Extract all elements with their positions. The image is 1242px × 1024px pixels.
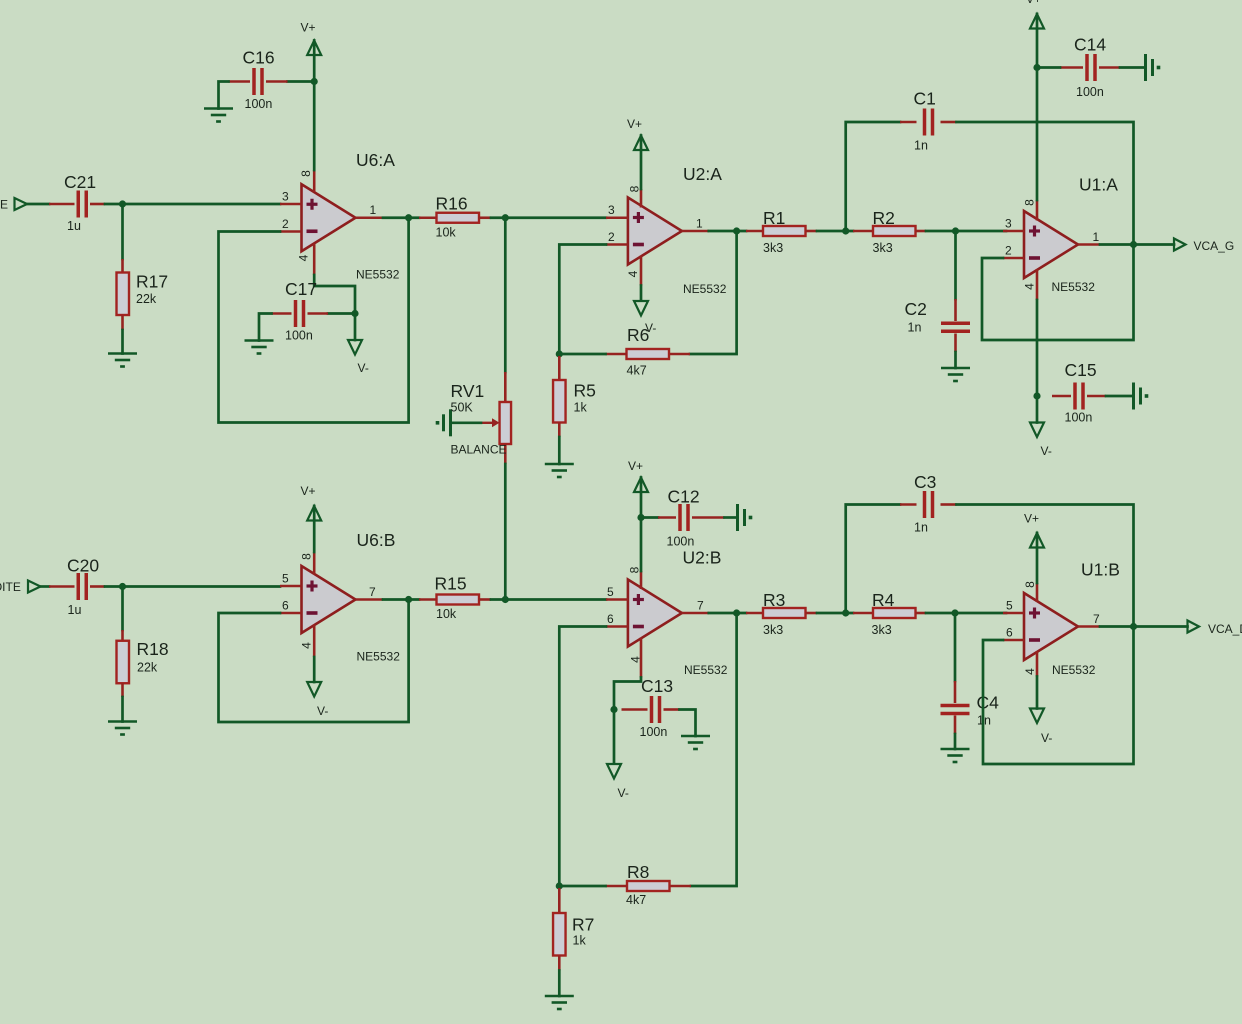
resistor R16 right pin — [479, 216, 492, 219]
capacitor C17 — [296, 300, 304, 327]
label U1:B — [1081, 560, 1120, 580]
resistor R3 — [763, 608, 806, 618]
part number NE5532 U2:B — [684, 663, 728, 677]
svg-text:1k: 1k — [574, 401, 588, 415]
svg-text:NE5532: NE5532 — [683, 282, 727, 296]
wire R2 to U1:A pin 3 — [926, 230, 1006, 233]
node U1:A output junction — [1130, 241, 1137, 248]
U1:A pin 8 stub — [1036, 200, 1039, 221]
label U2:B — [683, 548, 722, 568]
svg-text:R2: R2 — [873, 208, 895, 228]
U1:B pin 7 output stub — [1078, 625, 1100, 628]
svg-text:1n: 1n — [914, 139, 928, 153]
capacitor C20 left pin — [49, 585, 75, 588]
resistor R8 — [627, 881, 670, 891]
svg-text:5: 5 — [1006, 599, 1013, 613]
net label V+ (U1:A) — [1026, 0, 1041, 6]
svg-text:8: 8 — [1023, 199, 1037, 206]
capacitor C15 — [1075, 383, 1083, 410]
resistor R7 — [553, 913, 566, 956]
wire R15 to U2:B pin 5 — [491, 598, 606, 601]
svg-text:100n: 100n — [640, 725, 668, 739]
resistor R2 — [873, 226, 916, 236]
svg-text:C1: C1 — [914, 89, 936, 109]
svg-text:1: 1 — [370, 203, 377, 217]
svg-text:100n: 100n — [1076, 85, 1104, 99]
resistor R2 right pin — [916, 230, 927, 233]
capacitor C14 right pin — [1099, 66, 1120, 69]
svg-text:V-: V- — [1041, 731, 1052, 745]
svg-text:7: 7 — [1093, 612, 1100, 626]
net label V+ (U6:A) — [301, 21, 316, 35]
net label V+ (U2:B) — [628, 459, 643, 473]
svg-text:V-: V- — [317, 704, 328, 718]
capacitor C21 right pin — [90, 203, 105, 206]
svg-text:VCA_G: VCA_G — [1194, 239, 1235, 253]
wire junction up to U2:A pin 2 — [559, 245, 606, 355]
svg-text:6: 6 — [1006, 626, 1013, 640]
node U6:B output junction — [405, 596, 412, 603]
node R7/R8 junction — [556, 882, 563, 889]
svg-text:V+: V+ — [627, 117, 642, 131]
wire C12 to terminal — [725, 516, 738, 519]
svg-text:U6:A: U6:A — [356, 150, 395, 170]
pin number 7 U2:B — [697, 599, 704, 613]
pin number 5 U6:B — [282, 572, 289, 586]
net label V- (U1:A) — [1041, 444, 1052, 458]
U6:A pin 3 stub — [280, 203, 302, 206]
pin number 3 U2:A — [608, 203, 615, 217]
wire C14 to terminal — [1120, 66, 1146, 69]
capacitor C1 right pin — [941, 121, 957, 124]
wire U1:A output to terminal — [1100, 243, 1174, 246]
value C16 100n — [245, 97, 273, 111]
label U1:A — [1079, 175, 1118, 195]
svg-text:4: 4 — [297, 254, 311, 261]
wire R3 to R4 — [817, 612, 853, 615]
label R7 — [572, 915, 594, 935]
feedback wire U6:B output to pin 6 — [219, 600, 409, 723]
U1:A pin 3 stub — [1003, 230, 1024, 233]
pin number 2 U6:A — [282, 217, 289, 231]
U2:B pin 8 stub — [640, 571, 643, 589]
svg-text:3: 3 — [282, 190, 289, 204]
net label V- (U2:B) — [618, 786, 629, 800]
resistor R6 left pin — [606, 353, 628, 356]
svg-text:3k3: 3k3 — [873, 241, 893, 255]
power V+ arrow U6:A — [307, 41, 321, 56]
wire V+ down to U2:B pin 8 — [640, 478, 643, 572]
capacitor C2 bottom pin — [954, 334, 957, 353]
net label V- (U1:B) — [1041, 731, 1052, 745]
part number NE5532 U6:A — [356, 268, 400, 282]
svg-text:C2: C2 — [905, 299, 927, 319]
wire C3 to U1:B output — [957, 505, 1134, 627]
svg-text:1k: 1k — [573, 934, 587, 948]
wire C13 to ground — [680, 710, 696, 737]
node U6:A output junction — [405, 214, 412, 221]
U6:B pin 4 stub — [313, 625, 316, 658]
value C20 1u — [68, 603, 82, 617]
svg-text:NE5532: NE5532 — [356, 268, 400, 282]
resistor R15 left pin — [419, 598, 437, 601]
label C16 — [243, 48, 275, 68]
U2:A pin 3 stub — [606, 216, 628, 219]
svg-text:C4: C4 — [977, 693, 1000, 713]
value C2 1n — [908, 321, 922, 335]
svg-text:R17: R17 — [136, 272, 168, 292]
svg-text:R5: R5 — [574, 381, 596, 401]
value C4 1n — [977, 714, 991, 728]
svg-text:V+: V+ — [301, 21, 316, 35]
output terminal VCA_G arrow — [1174, 239, 1186, 251]
svg-text:BALANCE: BALANCE — [451, 443, 507, 457]
input terminal DROITE arrow — [28, 581, 41, 593]
pin number 2 U2:A — [608, 230, 615, 244]
wire V+ down to U1:A pin 8 — [1036, 14, 1039, 200]
node R1/R2/C1 junction — [842, 227, 849, 234]
pin number 1 U6:A — [370, 203, 377, 217]
svg-text:4: 4 — [626, 270, 640, 277]
wire junction down to R18 — [121, 587, 124, 631]
svg-text:C16: C16 — [243, 48, 275, 68]
svg-text:C15: C15 — [1065, 360, 1097, 380]
value R8 4k7 — [626, 893, 646, 907]
net label V- (U6:B) — [317, 704, 328, 718]
wire junction down to R17 — [121, 204, 124, 259]
resistor R3 left pin — [746, 612, 763, 615]
U1:A pin 4 stub — [1036, 269, 1039, 300]
capacitor C3 right pin — [941, 503, 957, 506]
svg-text:1n: 1n — [908, 321, 922, 335]
pin number 6 U2:B — [607, 612, 614, 626]
power V- arrow U2:B — [607, 764, 621, 779]
svg-text:DROITE: DROITE — [0, 580, 21, 594]
svg-text:C3: C3 — [914, 472, 936, 492]
wire R5 to ground — [558, 437, 561, 464]
wire C16 to ground — [219, 82, 229, 109]
potentiometer RV1 bottom pin — [504, 444, 507, 464]
node R4/C4 junction — [951, 609, 958, 616]
resistor R2 left pin — [853, 230, 873, 233]
resistor R5 top pin — [558, 356, 561, 380]
label C20 — [67, 556, 99, 576]
wire junction up to C3 — [846, 505, 900, 614]
svg-text:U1:A: U1:A — [1079, 175, 1118, 195]
wire U6:A pin 4 to C17 node — [314, 275, 355, 340]
value C3 1n — [914, 521, 928, 535]
terminal label DROITE — [0, 580, 21, 594]
node C12/V+ junction — [637, 514, 644, 521]
power V+ arrow U6:B — [307, 506, 321, 521]
net label V- (U2:A) — [645, 321, 656, 335]
op-amp U6:B — [302, 566, 356, 633]
capacitor C17 left pin — [272, 312, 292, 315]
op-amp U2:B — [628, 580, 682, 647]
label C17 — [285, 279, 317, 299]
capacitor C4 — [941, 706, 970, 714]
label R4 — [872, 590, 895, 610]
label C1 — [914, 89, 936, 109]
svg-text:22k: 22k — [137, 661, 158, 675]
capacitor C16 left pin — [229, 80, 251, 83]
svg-text:3: 3 — [608, 203, 615, 217]
resistor R6 right pin — [669, 353, 691, 356]
svg-text:5: 5 — [282, 572, 289, 586]
resistor R6 — [627, 349, 670, 359]
label RV1 — [451, 381, 485, 401]
wire C2 to ground — [954, 352, 957, 368]
pin number 8 U6:A — [299, 170, 313, 177]
wire U6:B output to R15 — [383, 598, 419, 601]
value R7 1k — [573, 934, 587, 948]
U1:B pin 4 stub — [1036, 651, 1039, 677]
part number NE5532 U6:B — [357, 650, 401, 664]
value R4 3k3 — [872, 623, 892, 637]
wire wiper to terminal — [452, 421, 481, 424]
wire junction to C12 — [641, 516, 658, 519]
capacitor C13 left pin — [622, 708, 648, 711]
svg-text:C20: C20 — [67, 556, 99, 576]
wire U2:B pin 4 to C13 node — [614, 678, 641, 764]
label U6:A — [356, 150, 395, 170]
resistor R15 right pin — [479, 598, 492, 601]
capacitor C20 right pin — [90, 585, 105, 588]
resistor R16 — [437, 213, 480, 223]
ground below C17 — [245, 341, 274, 354]
wire DROITE terminal to C20 — [41, 585, 50, 588]
svg-text:V-: V- — [618, 786, 629, 800]
node R2/C2 junction — [952, 227, 959, 234]
wire junction down to C4 — [954, 613, 957, 681]
capacitor C21 left pin — [49, 203, 75, 206]
wire C16 right to junction — [288, 80, 315, 83]
label R8 — [627, 862, 649, 882]
svg-text:8: 8 — [628, 566, 642, 573]
resistor R5 bottom pin — [558, 423, 561, 438]
svg-text:U6:B: U6:B — [357, 530, 396, 550]
U6:A pin 4 stub — [313, 244, 316, 276]
wire V+ to U6:B pin 8 — [313, 506, 316, 552]
value R17 22k — [136, 292, 157, 306]
wire R16 to U2:A pin 3 — [491, 216, 606, 219]
resistor R16 left pin — [419, 216, 437, 219]
power V+ arrow U1:A — [1030, 14, 1044, 29]
pin number 8 U2:B — [628, 566, 642, 573]
pin number 7 U1:B — [1093, 612, 1100, 626]
op-amp U1:A — [1024, 211, 1078, 278]
ground below C2 — [941, 368, 970, 381]
label R17 — [136, 272, 168, 292]
U6:A pin 8 stub — [313, 170, 316, 192]
op-amp U2:A — [628, 198, 682, 265]
svg-text:10k: 10k — [436, 607, 457, 621]
svg-text:100n: 100n — [667, 535, 695, 549]
resistor R3 right pin — [806, 612, 818, 615]
svg-text:8: 8 — [1023, 581, 1037, 588]
resistor R17 bottom pin — [121, 315, 124, 330]
label C4 — [977, 693, 1000, 713]
wire V+ to U1:B pin 8 — [1036, 533, 1039, 583]
wire U6:A output to R16 — [383, 216, 419, 219]
svg-text:C17: C17 — [285, 279, 317, 299]
label U2:A — [683, 164, 722, 184]
capacitor C16 — [254, 68, 262, 95]
value C12 100n — [667, 535, 695, 549]
svg-text:R1: R1 — [763, 208, 785, 228]
part number NE5532 U1:B — [1052, 663, 1096, 677]
potentiometer RV1 wiper arrow — [481, 418, 500, 427]
capacitor C2 — [941, 323, 970, 331]
terminal label VCA_G — [1194, 239, 1235, 253]
svg-text:V-: V- — [358, 361, 369, 375]
U1:B pin 5 stub — [1003, 612, 1024, 615]
svg-text:4: 4 — [1023, 283, 1037, 290]
pin number 5 U2:B — [607, 585, 614, 599]
value R1 3k3 — [763, 241, 783, 255]
pin number 1 U2:A — [696, 217, 703, 231]
wire junction up to U2:B pin 6 — [559, 627, 606, 887]
feedback wire U1:A output to pin 2 — [982, 245, 1134, 341]
node U1:B output junction — [1130, 623, 1137, 630]
label R16 — [436, 194, 468, 214]
resistor R7 bottom pin — [558, 956, 561, 971]
power V- arrow U6:A — [348, 340, 362, 355]
resistor R5 — [553, 380, 566, 423]
svg-text:RV1: RV1 — [451, 381, 485, 401]
pin number 4 U6:A — [297, 254, 311, 261]
svg-text:100n: 100n — [1065, 411, 1093, 425]
label C12 — [668, 487, 700, 507]
U6:B pin 7 output stub — [356, 598, 384, 601]
net label V+ (U2:A) — [627, 117, 642, 131]
U2:B pin 5 stub — [606, 598, 628, 601]
ground below R18 — [108, 722, 137, 735]
label C15 — [1065, 360, 1097, 380]
capacitor C1 left pin — [900, 121, 917, 124]
svg-text:3k3: 3k3 — [763, 241, 783, 255]
pin number 8 U1:B — [1023, 581, 1037, 588]
svg-text:R6: R6 — [627, 325, 649, 345]
wire C15 to terminal — [1106, 395, 1134, 398]
wire U1:A pin 4 down — [1036, 300, 1039, 423]
svg-text:V-: V- — [1041, 444, 1052, 458]
resistor R4 left pin — [853, 612, 873, 615]
value C13 100n — [640, 725, 668, 739]
node C13/V- junction — [610, 706, 617, 713]
unconnected terminal at C12 — [738, 504, 753, 531]
output terminal VCA_D arrow — [1188, 621, 1200, 633]
potentiometer RV1 top pin — [504, 372, 507, 402]
label R2 — [873, 208, 895, 228]
node C21/R17 junction — [119, 200, 126, 207]
svg-text:V+: V+ — [1026, 0, 1041, 6]
value R2 3k3 — [873, 241, 893, 255]
op-amp U1:B — [1024, 593, 1078, 660]
wire junction down to RV1 — [504, 218, 507, 372]
capacitor C21 — [78, 191, 86, 218]
pin number 7 U6:B — [369, 585, 376, 599]
feedback wire U6:A output to pin 2 — [219, 218, 409, 423]
power V- arrow U6:B — [307, 682, 321, 697]
wire R18 to ground — [121, 697, 124, 722]
wire junction to C14 — [1037, 66, 1060, 69]
svg-text:2: 2 — [1005, 244, 1012, 258]
U2:B pin 6 stub — [606, 625, 628, 628]
wire C21 to U6:A pin 3 — [105, 203, 280, 206]
U2:B pin 4 stub — [640, 638, 643, 678]
svg-text:C14: C14 — [1074, 35, 1106, 55]
svg-text:R4: R4 — [872, 590, 895, 610]
wire R1 to R2 — [817, 230, 853, 233]
terminal label VCA_D — [1208, 622, 1242, 636]
node C17/V- junction — [351, 310, 358, 317]
label R1 — [763, 208, 785, 228]
power V- arrow U1:B — [1030, 709, 1044, 724]
svg-text:R8: R8 — [627, 862, 649, 882]
pin number 8 U1:A — [1023, 199, 1037, 206]
pin number 4 U1:B — [1023, 668, 1037, 675]
svg-text:R18: R18 — [137, 639, 169, 659]
node R5/R6 junction — [556, 350, 563, 357]
svg-text:R16: R16 — [436, 194, 468, 214]
wire R8 left to R7 junction — [559, 885, 605, 888]
label R3 — [763, 590, 785, 610]
capacitor C13 — [652, 696, 660, 723]
U1:A pin 1 output stub — [1078, 243, 1100, 246]
svg-text:50K: 50K — [451, 401, 474, 415]
U6:B pin 6 stub — [280, 612, 302, 615]
wire R4 to U1:B pin 5 — [926, 612, 1006, 615]
power V- arrow U1:A — [1030, 423, 1044, 438]
capacitor C16 right pin — [266, 80, 288, 83]
wire R17 to ground — [121, 330, 124, 354]
input terminal E arrow — [15, 198, 28, 210]
capacitor C12 left pin — [658, 516, 676, 519]
svg-text:NE5532: NE5532 — [357, 650, 401, 664]
potentiometer RV1 body — [500, 402, 512, 444]
svg-text:3: 3 — [1005, 217, 1012, 231]
U2:A pin 8 stub — [640, 189, 643, 208]
op-amp U6:A — [302, 184, 356, 251]
wire V+ to U2:A pin 8 — [640, 136, 643, 190]
ground below C13 — [681, 736, 710, 749]
label C14 — [1074, 35, 1106, 55]
part number NE5532 U1:A — [1052, 280, 1096, 294]
capacitor C17 right pin — [308, 312, 329, 315]
U2:B pin 7 output stub — [682, 612, 709, 615]
pin number 4 U1:A — [1023, 283, 1037, 290]
wire C1 to U1:A output — [957, 122, 1134, 245]
wire junction up to C1 — [846, 122, 900, 231]
U2:A pin 4 stub — [640, 256, 643, 286]
resistor R17 — [117, 273, 130, 316]
capacitor C3 — [925, 491, 933, 518]
capacitor C15 left pin — [1052, 395, 1071, 398]
terminal label E — [0, 198, 8, 212]
svg-text:NE5532: NE5532 — [1052, 280, 1096, 294]
wire U1:B pin 4 to V- — [1036, 677, 1039, 709]
capacitor C15 right pin — [1087, 395, 1106, 398]
power V- arrow U2:A — [634, 301, 648, 316]
U6:B pin 8 stub — [313, 552, 316, 575]
resistor R8 left pin — [606, 885, 628, 888]
U2:A pin 2 stub — [606, 243, 628, 246]
svg-text:8: 8 — [299, 170, 313, 177]
capacitor C4 top pin — [954, 681, 957, 703]
ground below R7 — [545, 996, 574, 1009]
U6:A pin 2 stub — [280, 230, 302, 233]
